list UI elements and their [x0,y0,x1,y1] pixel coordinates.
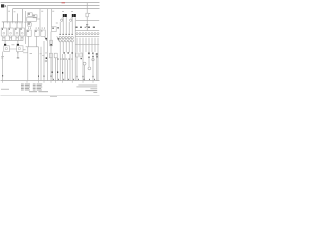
connector bar X100 [2,21,23,23]
wire X1 col1 down [59,42,61,81]
wire K1 out b [4,36,6,40]
legend column 2 [33,83,36,86]
wire number n2 [57,79,60,80]
connector X1 pin row 2 [59,40,61,42]
bus right mid [76,20,99,22]
bar tick t8 [21,22,23,24]
wire number n5 [72,79,75,80]
wire X5 down [76,57,78,81]
relay K4 coil circle [21,32,23,34]
pin label k3 [16,36,18,39]
plug X2 box [49,53,52,58]
lamp E2 stem [70,17,73,19]
label F3a [86,23,88,26]
wire r1 down [88,56,90,66]
lamp E2 [70,19,72,21]
pin tick m3 [35,27,38,28]
footer note mid b [38,91,48,92]
footer rule [1,95,100,97]
plug X3 box [54,53,57,58]
ground tick g6 [50,81,52,83]
wire X4 c1 [76,38,78,52]
pin tick m2 [29,27,32,28]
control unit N1 dot [28,13,29,14]
ground tick g7 [54,81,56,83]
wire tick v3 [50,75,53,77]
pin label p3 [65,33,67,36]
ground tick g8 [62,81,64,83]
wire run left2 [17,52,19,58]
wire K3 out a [15,36,17,40]
wire K4 out a [20,36,22,40]
wire label left2 [1,57,3,60]
wire X1 col2 down [62,42,64,52]
wire K1 out a [2,36,4,40]
wire number n8 [88,79,91,80]
conn label row b6 [71,58,73,61]
relay K4 box [20,28,24,36]
wire stub c23 [23,52,28,54]
relay K5 box [27,30,31,36]
switch S1 dot [45,38,47,40]
control unit N3 outline [27,17,37,21]
bar tick t6 [17,22,19,24]
control unit N2 box [33,15,37,18]
wire E3 down [84,65,86,81]
ground tick g10 [82,81,84,83]
power bus 30 (top rail) [1,2,100,4]
logo tab [5,5,6,7]
ground rail (terminal strip) [1,80,100,82]
switch S1 contact [45,37,47,41]
relay K1 coil circle [3,32,5,34]
wire pair2 right down [74,17,76,80]
relay contact pair K8 [63,14,65,17]
wire drop from bus 15 [6,6,8,22]
wire F3 top [86,3,88,14]
footer note left [1,88,9,91]
title block line 3 [90,87,97,90]
relay K2 coil circle [10,32,12,34]
relay K2 box [8,28,13,36]
conn label row b2 [60,58,62,61]
connector X4 top rail [75,30,99,32]
wire X2 down [51,58,53,81]
pin label q1 [75,27,77,28]
wire K8 down b [65,17,67,33]
wire K6 down [36,36,38,46]
bar tick t4 [12,22,14,24]
splice tick u4 [96,56,97,57]
wire tick v6 [92,76,95,77]
wire drop from bus R [12,9,14,22]
wire drop X51 [50,9,52,27]
ground tick g3 [26,81,28,83]
pin label q4 [93,27,95,28]
wire bus drop 38 [38,47,40,81]
bar tick t5 [14,22,16,24]
wire col2 lower [62,54,64,81]
relay K3 coil dot [15,29,16,30]
wire X51 lower [50,32,52,81]
wire number n6 [77,79,80,80]
wire label c42 [42,54,44,57]
lamp E6 [92,58,94,60]
splice tick u3 [92,56,93,57]
wire K5 down [28,36,30,46]
relay K6 box [35,30,39,36]
splice dot center [46,57,48,59]
switch S2 dot [58,38,59,39]
wire X3 down [54,58,56,81]
wire X1 col5 down [71,42,73,81]
splice label r2 [92,53,94,54]
wire col4 lower [69,54,71,81]
splice label s3 [71,52,73,53]
ground tick g5 [43,81,45,83]
wire E1 down [59,22,61,33]
title block line 5 [93,91,97,94]
splice dot w3 [62,72,63,74]
connector X4 bottom rail [75,36,99,38]
wire label x7 [8,10,10,13]
wire F3 bottom [86,17,88,31]
wire label x12 [14,10,16,13]
relay K1 coil dot [2,29,3,30]
pin label p5 [71,33,73,36]
title block line 1 [78,84,97,87]
wire A2 to center [23,49,26,51]
relay K6 dot [35,31,36,32]
conn label row b1 [57,58,59,61]
wire tick v2 [43,75,46,77]
module A2 label [17,51,19,54]
diode V1 [57,27,59,29]
wire label w51 [52,10,54,13]
resistor R1 dot [50,44,51,45]
pin tick m4 [37,27,40,28]
wire A1 stub [4,40,6,43]
wire col mid down [67,60,69,81]
wire drop X47 [46,9,48,81]
wire stub D [21,22,23,28]
plug X5 box [76,53,78,57]
wire K2 out a [8,36,10,40]
wire bus drop 41 [40,47,42,81]
lamp E1 stem [61,17,64,19]
wire A2 stub [17,40,19,43]
control unit N2 dot [34,14,35,17]
pin label p2 [62,33,64,36]
module A1 box [4,46,10,52]
wire K2 out b [11,36,13,40]
conn label row b5 [68,58,70,61]
wire label n4 [56,22,58,25]
wire drop X17 [17,14,19,22]
wire X4 c6 [91,38,93,52]
module A2 coil [18,47,20,49]
conn label row b4 [66,58,68,61]
wire tick v1 [37,75,40,77]
power bus R [13,8,100,10]
wire drop X22 [21,9,23,22]
bar tick t2 [6,22,8,24]
legend column 1 [21,83,24,86]
relay K2 coil dot [9,29,10,30]
connector X1 pin row 1 [59,36,61,38]
footer note mid a [29,91,37,92]
wire end terminal [17,57,19,58]
splice label s2 [67,52,69,53]
fuse F1 cap [4,44,6,46]
lamp E1 [61,19,63,21]
relay K7 dot [40,30,43,33]
fuse F2 cap [17,44,19,46]
splice dot w1 [52,71,53,73]
relay K5 dot [27,31,28,32]
conn label row b3 [63,58,65,61]
relay K7 box [41,30,45,36]
pin label k4 [21,36,23,39]
junction rail center [26,46,39,48]
pin label q2 [80,27,82,28]
junction rail left [2,39,23,41]
ground tick g11 [92,81,94,83]
wire number n7 [83,79,86,80]
relay K3 coil circle [16,32,18,34]
wire stub C [16,22,18,28]
pin label q3 [88,27,90,28]
title block line 2 [76,86,97,89]
wire N3 to X40 [36,18,40,20]
wire X4 c3 [82,38,84,81]
wire stub B [9,22,11,28]
lamp E4 [88,67,91,70]
wire X1 col3 down [65,42,67,52]
ground tick g4 [38,81,40,83]
wire tick v4 [76,76,79,77]
bar tick t3 [9,22,11,24]
wire number n4 [67,79,70,80]
lamp E3 [83,62,86,65]
connector X30 bar [24,21,31,23]
wire number n9 [93,79,96,80]
footer tiny text [50,95,57,98]
bar tick t7 [19,22,21,24]
wire label k9 [71,10,73,13]
ground tick g9 [71,81,73,83]
wire label k8 [62,10,64,13]
splice label s1 [63,52,65,53]
wire number n1 [52,79,55,80]
module A1 coil [5,47,7,49]
sensor B1 box [28,23,31,26]
pin tick m1 [27,27,30,28]
relay K4 coil dot [21,29,22,30]
label between modules [11,43,14,46]
label F3b [86,25,88,28]
splice tick u1 [81,58,82,59]
wire X1 col4 down [68,42,70,52]
wire label w40 [41,10,43,13]
wire drop X40 [39,9,41,30]
wire stub A [3,22,5,28]
switch S2 contact [57,36,59,41]
wire r3 down [96,56,98,81]
pin label q2b [85,27,87,28]
wire E2 down [68,22,70,33]
splice tick u2 [88,57,89,58]
wire ground run left [2,52,4,81]
title block line 4 [85,89,97,92]
wire col3 lower [64,54,66,81]
label r3 [96,53,98,55]
wire X4 c4 [85,38,87,52]
wire K4 out b [22,36,24,40]
pin label p1 [59,33,61,36]
red highlight wire segment [62,2,66,3]
wire label c29 [30,52,32,55]
ground tick g1 [2,81,4,83]
relay K3 box [15,28,19,36]
pin label p4 [68,33,70,36]
pin tick m6 [43,27,46,28]
wire bus drop 27 [27,47,29,81]
pin label k2 [10,36,12,39]
splice dot w2 [57,71,58,73]
wire r2 down [92,54,94,81]
plug X6 box [80,53,82,57]
wire tick left low [1,75,4,77]
bar tick t1 [3,22,5,24]
pin tick m5 [41,27,44,28]
junction rail right [75,44,99,46]
connector X4 pins [76,33,78,35]
wire tick v5 [82,76,85,77]
wire K9 down a [71,17,73,33]
wire K3 out b [17,36,19,40]
control unit N1 box [28,13,32,17]
wire between modules [9,48,16,50]
wire X4 c2 [79,38,81,52]
module N4 box [52,27,57,32]
wire X4 c5 [88,38,90,55]
module A2 box [17,46,23,52]
wire X4 c7 [94,38,96,52]
wire bus drop 44 [43,41,45,81]
wire label left [1,55,4,58]
logo block [1,4,4,7]
wire K8 down a [62,17,64,33]
lamp E5 [45,60,47,62]
wire label c39 [40,52,42,55]
power bus 15 [7,5,99,7]
relay contact pair K9 [72,14,74,17]
splice label r1 [88,53,90,54]
pin label k1 [3,36,5,39]
wire drop center module [25,11,27,44]
fuse F3 box [86,13,89,17]
wire X4 c8 [97,38,99,81]
resistor R1 narrow box [50,40,53,46]
wire mid down [57,58,59,81]
wire number n3 [62,79,65,80]
module N4 mark [52,28,53,29]
relay K1 box [1,28,6,36]
fuse F3 side tick [89,12,90,15]
wire label c45 [45,52,47,55]
sensor B1 dot [28,23,29,24]
